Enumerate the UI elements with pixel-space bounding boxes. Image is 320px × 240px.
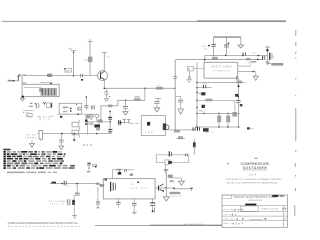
wire U5 out lower with ground	[238, 70, 259, 81]
capacitor C34 U4 leg with ground	[132, 199, 137, 214]
wire bus y133	[38, 133, 111, 135]
ground triangle outline	[89, 115, 93, 120]
input jack tip dot	[13, 80, 15, 82]
wire filter top thick	[214, 36, 241, 38]
junction dots y127	[196, 126, 239, 127]
ground arrow filter	[238, 37, 244, 48]
resistor R40 gray blob	[168, 175, 173, 178]
capacitor C23 dark	[119, 120, 121, 125]
label sustain row	[49, 200, 68, 205]
junction dot y122	[120, 122, 121, 123]
frame right dashed border	[295, 30, 296, 216]
capacitor C27 cluster	[87, 163, 97, 172]
capacitor C24 T marks	[123, 119, 131, 123]
wiper arrow VR	[73, 134, 76, 142]
transistor Q4 dark blob	[197, 92, 205, 95]
resistor R28 on y100	[206, 99, 213, 102]
wire y113 branch	[196, 112, 240, 114]
capacitor C22 dark end	[85, 119, 88, 125]
wire opto out	[166, 129, 196, 131]
wire sidechain vertical	[196, 62, 198, 127]
svg-text:100u: 100u	[203, 49, 207, 51]
svg-text:REL: REL	[250, 129, 255, 131]
node +9V rail tick A	[71, 51, 76, 76]
component R10	[96, 127, 100, 131]
notes row 2	[4, 153, 66, 155]
svg-text:R: R	[188, 68, 190, 71]
svg-text:PEAVEY ELECTRONICS CORP: PEAVEY ELECTRONICS CORP	[234, 195, 277, 199]
diode CR6 dark bars	[108, 117, 112, 119]
capacitor C1 input marks	[15, 74, 21, 81]
switch box S1a	[72, 122, 79, 127]
notes row 7	[4, 165, 68, 167]
diode CR4 cluster	[200, 105, 207, 113]
junction dot step	[125, 100, 126, 101]
capacitor C28 on wire	[116, 169, 121, 175]
wire step mid	[101, 100, 145, 122]
svg-text:3k4: 3k4	[83, 143, 92, 147]
capacitor C39 rail end	[257, 56, 265, 60]
svg-text:CR2: CR2	[203, 84, 207, 86]
svg-text:JL.: JL.	[232, 214, 241, 217]
junction dot gate node	[73, 75, 75, 77]
svg-text:IC2: IC2	[131, 184, 135, 186]
svg-text:Va: Va	[69, 47, 73, 51]
svg-text:C29: C29	[64, 186, 69, 188]
wire R40 branch with ground	[169, 178, 184, 185]
title block right col letters	[284, 207, 286, 226]
svg-text:VR2 50k: VR2 50k	[25, 135, 37, 137]
label dark wire note	[23, 109, 35, 114]
title block row3 texts	[224, 217, 267, 221]
svg-text:NE570 COMP: NE570 COMP	[212, 66, 232, 69]
junction dots main wire	[104, 87, 198, 89]
capacitor C12 marks on left vertical	[173, 77, 177, 79]
resistor R31 vertical	[217, 113, 221, 127]
sub box U2	[59, 103, 81, 114]
title tick mark	[227, 163, 228, 165]
junction dot stray	[95, 166, 97, 168]
wire box to rail	[204, 59, 206, 62]
junction dot rail	[204, 59, 206, 61]
diode CR8 dark marks	[72, 200, 75, 205]
wire y100 branch	[197, 100, 235, 112]
IC U5 box	[204, 62, 238, 78]
resistor R19 boxed label	[64, 68, 72, 72]
U4 internals	[111, 181, 149, 191]
wire y127 branch	[195, 126, 240, 128]
diode CR2 on wire	[203, 84, 207, 89]
capacitor C31 bars	[68, 199, 70, 205]
capacitor C17 cluster	[236, 101, 242, 107]
capacitor C37 electrolytic	[224, 37, 229, 55]
diode CR5 dark marks	[235, 94, 239, 98]
U4 pin mark	[105, 178, 107, 180]
junction dot y114	[77, 113, 79, 115]
capacitor C16 marks	[236, 76, 238, 80]
svg-text:50KC LIN: 50KC LIN	[50, 204, 65, 206]
svg-text:LIN: LIN	[44, 119, 51, 121]
wire drop into U4	[112, 170, 114, 179]
component box R35	[165, 160, 172, 165]
wire y138 stub	[176, 138, 185, 140]
title block row lines	[222, 206, 288, 221]
capacitor C7 chain	[84, 96, 88, 110]
svg-text:xCr?: xCr?	[233, 223, 244, 226]
input jack bracket J1	[22, 75, 26, 83]
svg-text:-Z.M: -Z.M	[234, 218, 244, 221]
node +9V tick Q1 drain	[102, 53, 107, 71]
resistor R34	[178, 136, 183, 139]
svg-text:R38 4.7k: R38 4.7k	[171, 196, 182, 198]
svg-text:SUSTAINER: SUSTAINER	[243, 166, 268, 170]
svg-text:D1: D1	[253, 53, 256, 55]
title block black bar	[245, 204, 256, 206]
wire over U4	[113, 169, 134, 171]
svg-text:LDR: LDR	[145, 132, 153, 134]
junction dots y133	[61, 133, 97, 135]
wire 9V feed	[225, 55, 259, 57]
ground arrow under box1	[20, 98, 24, 101]
wire y122 right	[118, 122, 131, 124]
output jack marks	[190, 188, 193, 191]
label INPUT	[8, 78, 14, 81]
title block right column divider	[282, 206, 284, 228]
svg-text:TONE IN A BOTTLE PRE-AMP SCHEM: TONE IN A BOTTLE PRE-AMP SCHEMATIC DIAGR…	[225, 178, 282, 181]
frame bottom border	[8, 225, 222, 226]
junction dot box top	[50, 83, 52, 85]
wire feedback drop	[144, 88, 146, 100]
svg-text:B: B	[284, 219, 286, 221]
svg-text:C36: C36	[203, 46, 208, 48]
frame top border	[2, 20, 286, 22]
resistor R38	[170, 192, 181, 194]
op-amp U1 hatched body	[41, 88, 58, 96]
wire stub box top	[40, 83, 52, 85]
svg-text:R41 1k: R41 1k	[205, 132, 214, 134]
wire dash-dot to opto	[131, 123, 142, 125]
svg-text:ALL RESISTORS: ALL RESISTORS	[184, 223, 203, 226]
diode CR7 marks	[125, 169, 133, 176]
svg-text:MODEL CS-4 COMPRESSOR SUSTAINE: MODEL CS-4 COMPRESSOR SUSTAINER PEDAL	[227, 182, 278, 185]
transistor Q6 dark blob	[94, 124, 100, 127]
notes row 1	[4, 151, 62, 153]
shield box input stage	[22, 84, 59, 96]
arrow adaptor small	[266, 62, 269, 65]
title block row1 texts	[224, 207, 287, 211]
resistor R8	[98, 119, 103, 122]
svg-text:L: L	[284, 214, 286, 216]
ground attack leg	[164, 165, 168, 174]
svg-text:deA: deA	[234, 207, 243, 211]
notes heading	[3, 149, 10, 151]
resistor R6 on step	[134, 96, 141, 100]
resistor R27 on y82	[237, 81, 243, 84]
title block row1 cell box	[241, 206, 259, 211]
junction dots y113	[203, 113, 229, 114]
label REL dark	[247, 127, 255, 130]
capacitor C21 bottom	[108, 129, 112, 133]
capacitor C29 on wire	[64, 181, 69, 188]
wire gate	[24, 75, 98, 77]
svg-text:4558 DUAL: 4558 DUAL	[130, 187, 149, 190]
resistor R12 before U4	[100, 184, 104, 187]
junction dots sidechain	[196, 82, 198, 115]
wire y114	[57, 113, 94, 115]
op-amp U4 box	[103, 179, 155, 199]
component R9 hanging	[85, 115, 89, 119]
svg-text:CS-4: CS-4	[249, 173, 257, 177]
diode CR9 ticks	[171, 180, 173, 182]
notes row 3	[4, 156, 65, 158]
resistor R7 small	[108, 105, 112, 108]
notes row 6	[4, 162, 63, 164]
component box R5	[47, 103, 52, 108]
wire top rail	[175, 59, 261, 129]
wire U5 out upper	[238, 63, 253, 67]
ground Q3 emitter	[163, 197, 169, 201]
transistor Q2 cluster	[109, 111, 111, 134]
label AC ADAPTOR gray bar	[268, 63, 284, 66]
svg-text:DATE 7-23-87: DATE 7-23-87	[262, 208, 279, 211]
boxed label R24	[187, 67, 204, 72]
potentiometer VR2 level	[39, 130, 43, 141]
label start dark	[52, 182, 57, 184]
svg-text:drwn. by: drwn. by	[224, 208, 235, 211]
svg-text:IC: IC	[64, 109, 67, 111]
capacitor C8 bars	[91, 105, 95, 109]
capacitor C6 polarized	[35, 103, 39, 108]
resistor R11 before U4	[96, 183, 99, 185]
transistor Q5 at box edge	[163, 123, 169, 130]
switch box S1b	[72, 130, 79, 135]
notes row 8	[4, 167, 75, 169]
U2 internals	[63, 104, 81, 112]
capacitor C11 with ground	[154, 99, 161, 112]
title block row4 texts	[224, 223, 244, 226]
capacitor C36 electrolytic	[203, 37, 216, 55]
svg-text:MERIDIAN MS: MERIDIAN MS	[248, 199, 263, 202]
boxed label R22	[27, 113, 32, 117]
resistor R4	[47, 74, 52, 77]
svg-text:EXPANDOR: EXPANDOR	[213, 70, 230, 73]
capacitor C14 cluster dark	[198, 127, 215, 134]
label VR2 text	[25, 135, 37, 140]
title block row2 texts	[224, 214, 241, 217]
resistor R25 on rail	[212, 55, 218, 60]
title block top cell	[222, 195, 232, 198]
wire into U4 left	[50, 184, 104, 186]
wire sidechain top stub	[197, 87, 212, 89]
svg-text:C15: C15	[106, 57, 111, 59]
resistor R21 on wire	[156, 85, 163, 89]
wire right column	[237, 78, 239, 127]
label mark C tick	[37, 117, 40, 121]
optocoupler U3 box	[141, 116, 165, 136]
transistor Q3 dark cluster	[159, 184, 167, 192]
svg-text:R26: R26	[248, 63, 253, 65]
capacitor C9 with ground	[104, 88, 110, 101]
wire y121 left	[85, 121, 110, 123]
capacitor C35 dark U4 leg	[150, 199, 155, 213]
ground corner dark blob	[22, 96, 24, 98]
capacitor C30 drop	[75, 184, 80, 195]
wire main signal y88	[104, 87, 175, 89]
capacitor C32 U4 left leg	[96, 187, 100, 209]
diode marks attack	[185, 154, 187, 157]
wire Q1 source down	[103, 81, 105, 89]
title underline	[242, 169, 267, 171]
wire switch links	[79, 120, 87, 137]
title dash above	[254, 158, 257, 159]
pin marks U1 left	[39, 89, 42, 92]
resistor R42 on rail	[246, 58, 256, 63]
svg-text:(C)1987 ALL RIGHTS RESERVED PE: (C)1987 ALL RIGHTS RESERVED PEAVEY ELECT…	[8, 221, 79, 225]
diode CR3 pair on rail	[243, 53, 246, 56]
svg-text:47: 47	[273, 57, 275, 59]
capacitor C18 dark cluster	[193, 127, 195, 130]
ground arrow VR2	[30, 140, 35, 147]
ground sustain	[72, 216, 77, 219]
battery tick +9V	[265, 47, 270, 64]
wire split Y mark	[43, 102, 45, 104]
capacitor C10 with ground	[123, 100, 128, 115]
capacitor C25 bars	[89, 123, 93, 125]
title block outer box	[222, 195, 288, 227]
capacitor C20 dark	[169, 151, 171, 156]
ground R24 leg	[187, 71, 192, 83]
notes row 4	[4, 158, 63, 160]
svg-text:L: L	[284, 224, 286, 226]
notes last gray row	[7, 172, 57, 174]
resistor R18	[84, 57, 92, 63]
label C3 value bars	[29, 103, 33, 107]
potentiometer VR1 ellipse	[95, 114, 99, 122]
capacitor C19 dark bar	[193, 139, 197, 155]
wire power branch	[205, 56, 268, 60]
junction dots wire	[61, 183, 78, 185]
capacitor C26 with ground	[59, 134, 64, 150]
node +9V rail tick B	[88, 42, 93, 76]
notes row 5	[4, 160, 65, 162]
label sens text	[43, 117, 51, 121]
U3 LED dark blob	[147, 122, 150, 126]
capacitor C13 with ground on left vertical	[175, 97, 183, 115]
wire sustain vertical	[73, 195, 80, 215]
svg-text:LEVEL: LEVEL	[25, 138, 37, 140]
wire U4 out	[155, 187, 193, 190]
marks below box2	[60, 116, 62, 118]
power tick Q3	[164, 170, 168, 197]
capacitor C38 dark bar	[270, 53, 275, 60]
resistor R33	[174, 130, 180, 132]
junction dot U4 out	[173, 188, 175, 190]
wire y82 branch	[197, 82, 246, 84]
resistor R29 vertical	[232, 112, 237, 117]
svg-text:C5: C5	[50, 115, 54, 118]
capacitor C2 gate marks	[81, 74, 83, 81]
junction dot right column	[238, 85, 240, 87]
resistor R32 vertical	[226, 113, 230, 127]
capacitor C33 U4 leg	[116, 199, 121, 208]
transistor Q1	[98, 71, 108, 81]
wire attack loop	[156, 155, 189, 163]
